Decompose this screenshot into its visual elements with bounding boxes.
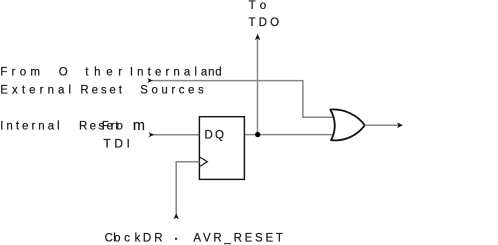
arrowhead from reset sources (right): [147, 78, 153, 83]
svg-text:C: C: [105, 233, 113, 245]
svg-text:To: To: [249, 0, 267, 12]
label External Reset Sources: [0, 84, 204, 96]
svg-text:Fro: Fro: [102, 120, 123, 132]
label From Other Internal and: [0, 67, 222, 79]
svg-text:From: From: [0, 67, 40, 79]
svg-text:O: O: [59, 67, 68, 79]
svg-text:TDI: TDI: [103, 136, 129, 150]
arrowhead to TDO (up): [255, 34, 260, 40]
svg-text:R: R: [154, 233, 162, 245]
wire OR output: [365, 124, 399, 126]
svg-text:D: D: [143, 233, 151, 245]
svg-text:k: k: [135, 233, 141, 245]
svg-text:Reset: Reset: [80, 84, 122, 96]
junction dot on Q net: [255, 132, 260, 137]
OR gate U2: [330, 109, 365, 140]
svg-text:External: External: [0, 84, 71, 96]
flip-flop U1 box: [199, 117, 244, 180]
svg-text:Sources: Sources: [140, 84, 204, 96]
svg-text:c: c: [124, 233, 130, 245]
svg-text:AVR_RESET: AVR_RESET: [193, 233, 283, 245]
wire ClockDR.AVR_RESET to clock input: [176, 162, 199, 215]
svg-text:and: and: [201, 67, 222, 79]
wire from other reset sources to OR gate top input: [152, 81, 337, 118]
svg-text:m: m: [133, 118, 145, 134]
wire from TDI to D input: [153, 134, 200, 136]
svg-text:Internal: Internal: [0, 120, 60, 132]
arrowhead clock (up): [174, 213, 179, 219]
svg-text:ther: ther: [85, 67, 122, 79]
arrowhead output (right): [397, 122, 403, 128]
label Internal Reset: [0, 120, 119, 132]
clock edge triangle: [200, 157, 207, 166]
svg-text:Internal: Internal: [130, 67, 197, 79]
arrowhead from TDI (right): [149, 132, 155, 137]
svg-text:DQ: DQ: [205, 129, 225, 141]
label ClockDR . AVR_RESET: [105, 233, 283, 245]
wire to TDO (vertical, crosses reset-sources wire): [257, 39, 259, 135]
wire Q output to OR gate bottom input: [244, 134, 337, 136]
svg-text:TDO: TDO: [249, 17, 280, 29]
svg-text:o: o: [114, 233, 120, 245]
